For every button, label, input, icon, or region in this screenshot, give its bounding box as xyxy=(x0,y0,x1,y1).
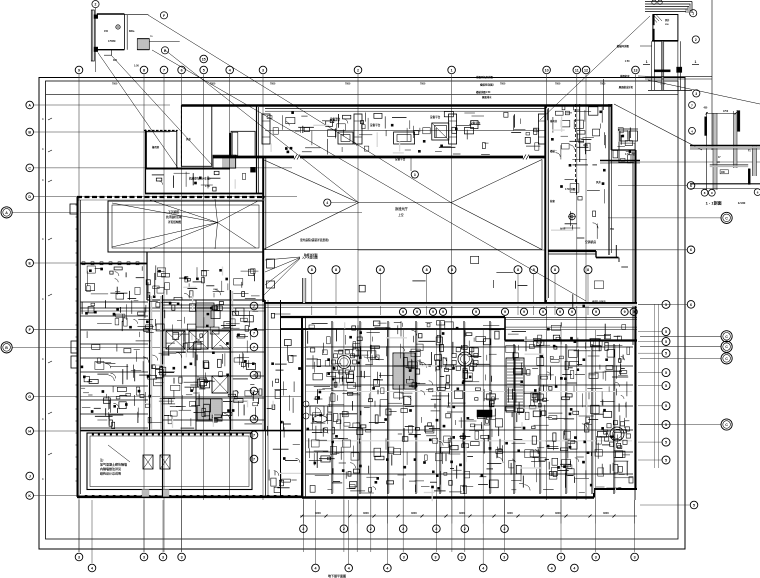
tower top wall east part xyxy=(505,339,637,341)
svg-text:1: 1 xyxy=(451,68,453,72)
svg-text:D: D xyxy=(28,195,31,199)
tower west wall courtyard stub xyxy=(303,278,305,303)
left wall window ticks xyxy=(76,204,80,206)
right wing northeast corner xyxy=(611,104,613,150)
left wing east room dividers xyxy=(163,304,264,306)
upper-left block room B tall xyxy=(181,106,211,167)
svg-text:空调机房: 空调机房 xyxy=(585,240,596,244)
svg-text:3600: 3600 xyxy=(315,511,321,515)
entry hall callout fan xyxy=(265,257,300,260)
svg-text:3: 3 xyxy=(181,555,183,559)
svg-text:6: 6 xyxy=(181,68,183,72)
grid large bubble left B xyxy=(1,342,12,353)
right dimension chain lines xyxy=(654,304,656,468)
svg-text:8: 8 xyxy=(311,268,313,272)
svg-text:3: 3 xyxy=(162,555,164,559)
svg-text:G: G xyxy=(28,395,31,399)
section 1-1 base bubbles xyxy=(701,189,708,196)
bottom wall step right xyxy=(593,489,595,498)
svg-text:J: J xyxy=(29,474,31,478)
lower-left terrace rectangle xyxy=(87,433,252,490)
room clutter hall top band rooms xyxy=(482,143,485,149)
svg-text:排烟风机房详图: 排烟风机房详图 xyxy=(476,75,493,79)
svg-text:详见结构图: 详见结构图 xyxy=(168,220,181,224)
left wing stair hatch lower xyxy=(196,399,222,421)
upper-left block mid wall xyxy=(145,168,230,170)
svg-text:4: 4 xyxy=(229,68,231,72)
top-right detail bottom wall xyxy=(652,40,678,42)
grid bubbles left column xyxy=(26,101,34,109)
svg-text:4: 4 xyxy=(573,566,575,570)
svg-text:泳池大厅: 泳池大厅 xyxy=(395,206,409,211)
svg-text:5: 5 xyxy=(665,423,667,427)
svg-text:楼梯二: 楼梯二 xyxy=(550,149,558,153)
left terrace leader xyxy=(108,445,130,462)
bottom wall tick dots xyxy=(85,495,87,497)
svg-text:备用房: 备用房 xyxy=(151,145,160,149)
svg-text:4: 4 xyxy=(386,566,388,570)
svg-text:1:50: 1:50 xyxy=(134,65,139,68)
hall inner top wall xyxy=(213,156,294,159)
building bottom wall left section xyxy=(77,496,302,498)
svg-text:6: 6 xyxy=(690,248,692,252)
svg-text:坡道1:8详见: 坡道1:8详见 xyxy=(592,300,606,304)
svg-text:5: 5 xyxy=(693,503,695,507)
svg-text:A: A xyxy=(28,103,31,107)
svg-text:150: 150 xyxy=(104,30,109,33)
section 1-1 frame side bubbles xyxy=(689,102,696,109)
svg-text:抗浮锚杆区域: 抗浮锚杆区域 xyxy=(166,215,182,219)
grid bubbles bottom row 1 xyxy=(75,553,83,561)
svg-text:3600: 3600 xyxy=(603,511,609,515)
svg-text:4: 4 xyxy=(348,566,350,570)
right wing column point symbol xyxy=(569,213,575,219)
svg-text:1/100: 1/100 xyxy=(738,201,746,205)
section 1-1 black column bars xyxy=(705,117,707,136)
svg-text:3600: 3600 xyxy=(363,511,369,515)
svg-text:4: 4 xyxy=(315,566,317,570)
top dimension line xyxy=(46,94,678,96)
svg-text:B: B xyxy=(5,346,8,350)
section 1-1 leader from plan xyxy=(648,80,760,104)
svg-text:C: C xyxy=(725,335,728,339)
grid bubbles right frame column xyxy=(687,182,695,190)
svg-text:5: 5 xyxy=(665,404,667,408)
top-left detail axis line xyxy=(95,8,97,72)
leader diagonal from top-left detail second xyxy=(148,15,451,203)
svg-text:5: 5 xyxy=(665,330,667,334)
svg-text:7: 7 xyxy=(253,433,255,437)
section 1-1 top dimension xyxy=(707,112,736,114)
left wing top dashed wall xyxy=(77,196,265,198)
top-left detail room box xyxy=(97,13,125,15)
svg-text:前室: 前室 xyxy=(550,199,555,203)
top-right leader lines xyxy=(640,45,652,47)
svg-text:下沉庭院: 下沉庭院 xyxy=(168,210,179,214)
svg-text:A: A xyxy=(5,211,8,215)
left wall window boxes xyxy=(70,204,78,214)
svg-text:3: 3 xyxy=(695,92,697,96)
svg-text:7800: 7800 xyxy=(600,82,606,85)
top-left detail bottom notch xyxy=(111,50,113,56)
top-left detail top extension line xyxy=(124,14,148,16)
corridor west lines xyxy=(265,300,267,497)
top-left detail wall bar xyxy=(91,10,94,61)
svg-text:K: K xyxy=(28,494,31,498)
svg-text:地下层平面图: 地下层平面图 xyxy=(328,573,346,578)
svg-text:7800: 7800 xyxy=(270,82,276,85)
svg-text:风井: 风井 xyxy=(596,180,601,184)
top-right detail top tick bubbles xyxy=(652,0,656,4)
left wing west exterior wall xyxy=(77,197,79,497)
hall interior tag bubble xyxy=(411,171,418,178)
svg-text:9: 9 xyxy=(542,310,544,314)
svg-text:2: 2 xyxy=(504,527,506,531)
svg-text:5: 5 xyxy=(665,303,667,307)
leader diagonal to plan xyxy=(540,16,650,120)
right wing top wall xyxy=(546,104,612,106)
svg-text:10: 10 xyxy=(545,68,549,72)
svg-text:C: C xyxy=(725,216,728,220)
left wall inner gray poche xyxy=(78,201,80,495)
svg-text:注:: 注: xyxy=(100,457,104,462)
svg-text:2: 2 xyxy=(357,68,359,72)
tower interior horizontal partitions xyxy=(306,346,633,348)
right wing mid wall xyxy=(600,160,640,162)
left wing elevator 4 xyxy=(212,376,228,393)
svg-text:7800: 7800 xyxy=(112,82,118,85)
top-right detail room box xyxy=(653,15,678,41)
svg-text:5: 5 xyxy=(665,384,667,388)
svg-text:4: 4 xyxy=(326,201,328,205)
section 1-1 floor slab line xyxy=(690,145,760,147)
svg-text:F: F xyxy=(163,14,165,18)
svg-text:排风井: 排风井 xyxy=(550,119,558,123)
room clutter tower east strip sparse xyxy=(622,325,626,330)
svg-text:8: 8 xyxy=(517,268,519,272)
svg-text:结构设计总说明: 结构设计总说明 xyxy=(100,471,121,476)
svg-text:1: 1 xyxy=(692,12,694,16)
skylight outline xyxy=(263,249,542,251)
right wing south wall xyxy=(548,250,596,252)
svg-text:3600: 3600 xyxy=(411,511,417,515)
left dimension chain ticks xyxy=(48,118,52,120)
grid bubbles right inner column xyxy=(662,300,670,308)
top-left detail bubbles xyxy=(92,1,99,8)
pool fan leader lines xyxy=(112,203,218,223)
room clutter left wing rooms lower xyxy=(187,324,196,330)
svg-text:设备平台: 设备平台 xyxy=(430,115,441,119)
svg-text:9: 9 xyxy=(504,310,506,314)
tower interior thick wall xyxy=(280,328,505,330)
svg-text:屋面做法详见: 屋面做法详见 xyxy=(619,85,634,89)
hall right wall gray poche xyxy=(546,108,548,300)
svg-text:楼梯间(剖面): 楼梯间(剖面) xyxy=(480,83,494,87)
svg-text:室外庭院(铺装详见景观): 室外庭院(铺装详见景观) xyxy=(300,238,329,242)
room clutter left wing rooms mid xyxy=(87,286,90,292)
building bottom wall tower section xyxy=(302,496,594,498)
svg-text:7: 7 xyxy=(253,373,255,377)
svg-text:上空: 上空 xyxy=(398,213,404,217)
corridor bubble column xyxy=(250,302,258,310)
svg-text:7: 7 xyxy=(253,345,255,349)
svg-text:4: 4 xyxy=(551,566,553,570)
svg-text:7: 7 xyxy=(253,331,255,335)
hall west wall door boxes xyxy=(267,259,275,268)
svg-text:8: 8 xyxy=(554,268,556,272)
tower top wall west part xyxy=(280,316,505,318)
wall break symbols xyxy=(294,155,297,160)
svg-text:9: 9 xyxy=(559,310,561,314)
svg-text:3: 3 xyxy=(461,555,463,559)
top-left detail stair xyxy=(137,39,149,50)
hall wall tag bubble xyxy=(410,158,412,171)
svg-text:5: 5 xyxy=(665,458,667,462)
svg-text:3: 3 xyxy=(414,173,416,177)
svg-text:楼梯间详图: 楼梯间详图 xyxy=(617,44,630,48)
tower west office desk xyxy=(310,406,324,415)
svg-text:1: 1 xyxy=(646,60,648,64)
floor level label black box xyxy=(477,410,492,417)
svg-text:5: 5 xyxy=(203,68,205,72)
round dining table 3 xyxy=(610,427,624,441)
svg-text:2: 2 xyxy=(95,3,97,7)
svg-text:1750: 1750 xyxy=(723,111,729,113)
section 1-1 mid gray line xyxy=(710,165,749,167)
drawing frame outer border xyxy=(39,78,685,550)
svg-text:5: 5 xyxy=(665,352,667,356)
leader diagonal to section detail xyxy=(614,104,702,150)
upper-left block black wall bar xyxy=(229,133,231,157)
svg-text:1 - 1剖面: 1 - 1剖面 xyxy=(706,200,722,206)
top-left detail leader diagonals to block xyxy=(98,53,178,169)
svg-text:C: C xyxy=(725,423,728,427)
upper-left block corner black blob xyxy=(251,167,256,172)
table 3 chairs xyxy=(626,434,630,438)
drawing frame inner border xyxy=(46,81,679,539)
svg-text:设备平台: 设备平台 xyxy=(370,123,381,127)
grid bubbles bottom row 2 xyxy=(88,564,96,572)
right wing east wall xyxy=(635,150,637,489)
left wing elevator 1 xyxy=(166,331,185,349)
left wing mid partition wall xyxy=(146,252,148,300)
upper-left block east wall xyxy=(256,106,258,194)
svg-text:9: 9 xyxy=(523,310,525,314)
tower east thin lines xyxy=(505,317,637,319)
room clutter tower apartments west xyxy=(428,423,432,427)
tower unit horizontal gray walls xyxy=(306,391,632,393)
left wing elevator 2 xyxy=(189,331,208,349)
section 1-1 base lines xyxy=(690,183,760,185)
right wing south wall step xyxy=(595,251,597,258)
svg-text:300: 300 xyxy=(113,59,118,62)
gray wall posts on bottom wall xyxy=(142,490,149,497)
tower main stair hatch xyxy=(506,358,524,412)
svg-text:屋面排水: 屋面排水 xyxy=(482,95,492,99)
svg-text:3: 3 xyxy=(262,68,264,72)
svg-text:7800: 7800 xyxy=(500,82,506,85)
svg-text:880a: 880a xyxy=(129,30,135,33)
round dining table 1 xyxy=(338,356,351,369)
tower west thick wall xyxy=(301,317,303,497)
room clutter right wing northeast rooms xyxy=(625,141,632,146)
top band mid line xyxy=(265,130,545,132)
left wing stair hatch upper xyxy=(196,303,214,327)
top-right detail bubbles xyxy=(690,10,697,17)
svg-text:3: 3 xyxy=(503,555,505,559)
grid large bubbles right column xyxy=(721,212,732,223)
grid bubble extra pair xyxy=(200,55,208,63)
svg-text:C: C xyxy=(28,166,31,170)
grid large bubble left A xyxy=(1,207,12,218)
top-right detail black square xyxy=(677,67,682,72)
svg-text:4: 4 xyxy=(482,566,484,570)
svg-text:加气混凝土砌块隔墙: 加气混凝土砌块隔墙 xyxy=(99,462,127,467)
svg-text:3600: 3600 xyxy=(555,511,561,515)
left wing west room dividers xyxy=(80,301,148,303)
left wing east partition vertical xyxy=(195,300,197,430)
svg-text:8: 8 xyxy=(587,268,589,272)
top-right detail nested top channel xyxy=(645,1,692,3)
svg-text:7800: 7800 xyxy=(555,82,561,85)
skylight ridge tag bubble xyxy=(324,199,331,206)
vertical grid stubs below frame xyxy=(78,500,80,552)
svg-text:1: 1 xyxy=(695,60,697,64)
svg-text:4: 4 xyxy=(91,566,93,570)
table 1 chairs xyxy=(353,360,357,364)
svg-text:设备平台: 设备平台 xyxy=(395,157,406,161)
svg-text:3: 3 xyxy=(403,555,405,559)
left wing east wall xyxy=(230,290,232,430)
grid bubbles top row xyxy=(75,66,83,74)
hall right wall xyxy=(544,105,546,302)
svg-text:2: 2 xyxy=(343,527,345,531)
svg-text:9: 9 xyxy=(78,68,80,72)
right wing partitions xyxy=(575,104,577,182)
skylight hip diagonals xyxy=(263,160,359,203)
svg-text:H: H xyxy=(28,429,31,433)
top-left detail survey circle xyxy=(116,25,120,29)
upper corridor north wall xyxy=(264,302,637,304)
skylight ridge line xyxy=(359,202,451,204)
upper-left block room A xyxy=(146,131,176,168)
svg-text:2: 2 xyxy=(302,527,304,531)
svg-text:3600: 3600 xyxy=(507,511,513,515)
room clutter courtyard sparse marks xyxy=(594,281,603,289)
svg-text:1:50 详图: 1:50 详图 xyxy=(565,187,576,191)
left wing corridor lines xyxy=(79,307,265,309)
svg-text:9: 9 xyxy=(432,310,434,314)
svg-text:12: 12 xyxy=(584,68,588,72)
leader diagonal from top-left detail long xyxy=(152,50,586,301)
room clutter tower apartments east xyxy=(562,460,571,467)
svg-text:C: C xyxy=(725,345,728,349)
vertical grid axis lines xyxy=(78,75,80,553)
tower bubble row 2 xyxy=(399,308,406,315)
left wing bottom inner wall xyxy=(78,430,302,432)
room clutter upper-left block sparse xyxy=(214,171,219,174)
top-right detail base line xyxy=(648,90,692,92)
tower west stair hatch xyxy=(393,353,415,389)
hall top exterior wall xyxy=(181,104,546,107)
svg-text:9: 9 xyxy=(402,310,404,314)
table 2 chairs xyxy=(474,360,478,364)
svg-text:9: 9 xyxy=(442,310,444,314)
svg-text:2: 2 xyxy=(402,527,404,531)
terrace top edge tick dots xyxy=(92,434,94,436)
svg-text:8: 8 xyxy=(379,268,381,272)
svg-text:7800: 7800 xyxy=(345,82,351,85)
room clutter corridor strip xyxy=(279,480,283,486)
svg-text:楼梯详图1:50: 楼梯详图1:50 xyxy=(476,90,491,94)
svg-text:2: 2 xyxy=(464,527,466,531)
svg-text:3: 3 xyxy=(634,555,636,559)
grid bubbles bottom row inside frame xyxy=(300,525,308,533)
top-right detail black bar xyxy=(654,70,670,72)
svg-text:9: 9 xyxy=(475,310,477,314)
svg-text:3: 3 xyxy=(595,555,597,559)
svg-text:11: 11 xyxy=(575,68,579,72)
top-left detail right extension line xyxy=(149,40,179,42)
svg-text:3: 3 xyxy=(435,555,437,559)
wall below pool xyxy=(79,263,147,265)
left wing elevator 3 xyxy=(212,331,230,349)
svg-text:3: 3 xyxy=(78,555,80,559)
svg-text:5: 5 xyxy=(665,340,667,344)
top band square fixtures xyxy=(338,132,353,144)
svg-text:3: 3 xyxy=(143,555,145,559)
svg-text:8: 8 xyxy=(451,268,453,272)
svg-text:3: 3 xyxy=(560,555,562,559)
svg-text:3600: 3600 xyxy=(459,511,465,515)
svg-text:9: 9 xyxy=(416,310,418,314)
left wing elevator bank gray surround xyxy=(164,329,232,331)
section 1-1 thin verticals xyxy=(706,112,708,190)
svg-text:750: 750 xyxy=(610,228,615,231)
room clutter right wing top rooms xyxy=(585,143,590,151)
terrace door symbols xyxy=(143,455,153,469)
top band grid pilaster boxes xyxy=(262,114,270,144)
svg-text:6: 6 xyxy=(690,303,692,307)
svg-text:2: 2 xyxy=(370,527,372,531)
svg-text:2: 2 xyxy=(435,527,437,531)
horizontal grid axis lines right xyxy=(618,185,687,187)
svg-text:6: 6 xyxy=(690,184,692,188)
svg-text:9: 9 xyxy=(595,310,597,314)
svg-text:种植池详图: 种植池详图 xyxy=(303,253,318,257)
svg-text:9: 9 xyxy=(624,310,626,314)
svg-text:5: 5 xyxy=(665,441,667,445)
room clutter right wing sparse xyxy=(593,211,596,217)
svg-text:8: 8 xyxy=(335,268,337,272)
svg-text:2: 2 xyxy=(695,38,697,42)
svg-text:15: 15 xyxy=(202,57,206,61)
svg-text:7800: 7800 xyxy=(420,82,426,85)
right wing top-right rooms xyxy=(619,128,638,130)
upper-left block duct room xyxy=(231,131,255,157)
section 1-1 annotation box xyxy=(720,170,728,174)
vertical grid axis lines lower part xyxy=(302,330,304,524)
svg-text:13: 13 xyxy=(634,68,638,72)
tower bubble row above xyxy=(308,266,316,274)
top-right detail floor slab lines xyxy=(645,75,712,77)
section 1-1 gray wall bands xyxy=(713,113,717,190)
svg-text:C: C xyxy=(725,357,728,361)
svg-text:8: 8 xyxy=(426,268,428,272)
horizontal grid axis lines left xyxy=(34,104,170,106)
svg-text:5: 5 xyxy=(665,371,667,375)
svg-text:7: 7 xyxy=(253,457,255,461)
